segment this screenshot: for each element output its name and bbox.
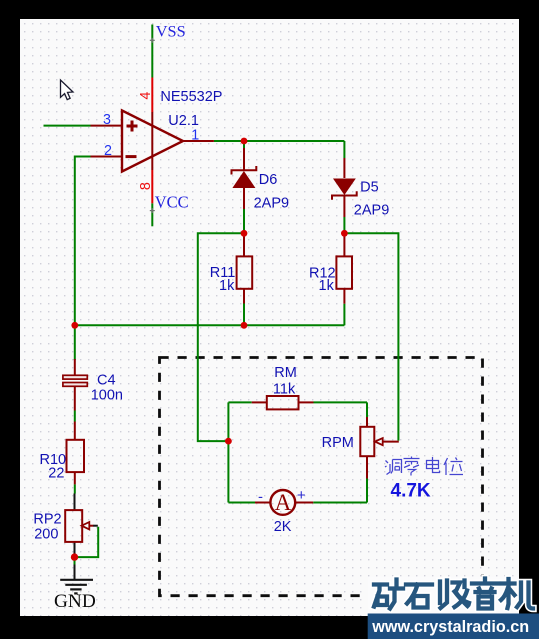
svg-text:2AP9: 2AP9 [254,196,289,212]
svg-text:www.crystalradio.cn: www.crystalradio.cn [371,618,529,636]
svg-text:A: A [275,490,292,515]
svg-text:RPM: RPM [322,435,354,451]
svg-text:VSS: VSS [156,22,186,41]
svg-text:2K: 2K [274,519,292,535]
svg-text:1k: 1k [219,278,235,294]
svg-text:22: 22 [48,465,64,481]
svg-text:NE5532P: NE5532P [160,89,222,105]
svg-text:11k: 11k [273,382,296,398]
svg-text:100n: 100n [91,388,123,404]
svg-text:1k: 1k [319,278,335,294]
svg-text:GND: GND [54,591,96,612]
svg-text:1: 1 [191,128,199,144]
svg-text:4: 4 [138,92,154,100]
svg-text:3: 3 [103,112,111,128]
svg-text:-: - [258,489,263,506]
svg-text:VCC: VCC [155,193,189,212]
svg-text:RM: RM [274,365,297,381]
svg-text:200: 200 [34,527,58,543]
svg-text:D5: D5 [360,179,379,195]
svg-text:2AP9: 2AP9 [354,203,389,219]
svg-text:D6: D6 [259,172,278,188]
svg-text:C4: C4 [97,372,116,388]
svg-text:8: 8 [138,182,154,190]
svg-text:RP2: RP2 [33,511,61,527]
svg-text:4.7K: 4.7K [391,481,431,502]
svg-text:2: 2 [104,143,112,159]
svg-text:+: + [297,487,306,504]
